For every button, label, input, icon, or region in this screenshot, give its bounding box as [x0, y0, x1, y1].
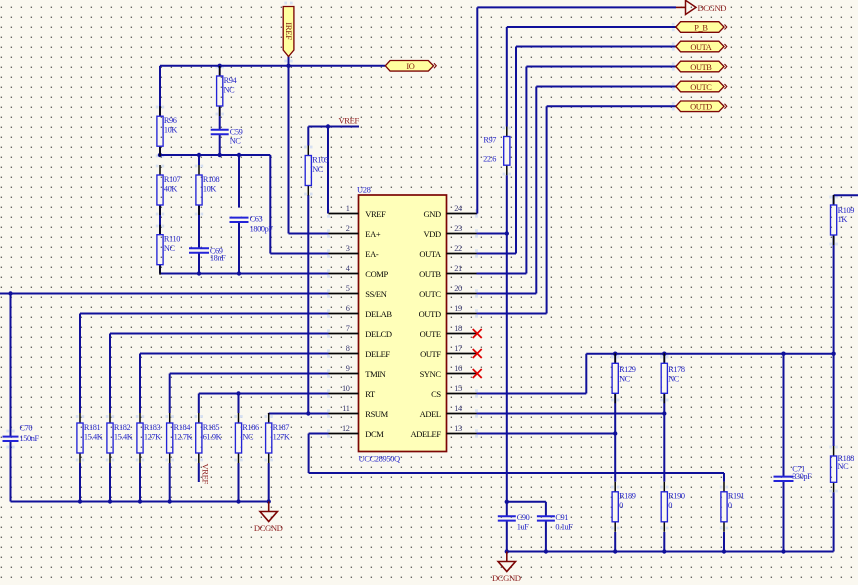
svg-text:R96: R96 [164, 116, 177, 125]
svg-text:1800pF: 1800pF [250, 225, 274, 234]
resistor R105 (NC) [305, 146, 329, 196]
wire: DELEF to R183 [140, 354, 329, 414]
svg-text:18nF: 18nF [210, 254, 226, 263]
wire: CS net (R129 R178 C71 R188 R109) [477, 195, 858, 476]
svg-text:OUTD: OUTD [690, 103, 712, 112]
IC U28 UCC28950Q [329, 184, 477, 463]
svg-text:NC: NC [619, 375, 631, 384]
svg-text:40K: 40K [164, 184, 177, 193]
svg-text:R190: R190 [668, 491, 685, 500]
svg-text:OUTF: OUTF [420, 349, 441, 359]
svg-text:RSUM: RSUM [365, 409, 388, 419]
svg-text:C90: C90 [517, 513, 530, 522]
resistor R110 (NC) [157, 225, 180, 275]
wire: TMIN to R184 [170, 374, 329, 414]
resistor R94 (NC) [217, 66, 238, 116]
svg-text:OUTB: OUTB [690, 63, 712, 72]
pin 11 (RSUM) [329, 404, 389, 419]
wire: R94 to C59 [219, 106, 221, 130]
svg-text:IO: IO [406, 62, 414, 71]
svg-text:R105: R105 [312, 156, 329, 165]
capacitor C63 1800pF [230, 215, 274, 234]
no-connect X on pin 18 [473, 329, 482, 338]
svg-text:U28: U28 [357, 184, 371, 194]
no-connect X on pin 16 [473, 369, 482, 378]
pin 7 (DELCD) [329, 324, 392, 339]
svg-text:R185: R185 [203, 423, 220, 432]
pin 2 (EA+) [329, 224, 381, 239]
svg-text:5: 5 [346, 284, 350, 293]
svg-text:R191: R191 [728, 491, 745, 500]
svg-text:61.9K: 61.9K [203, 432, 222, 441]
pin 18 (OUTE) [420, 324, 477, 339]
svg-text:UCC28950Q: UCC28950Q [359, 453, 401, 463]
svg-text:22: 22 [454, 244, 462, 253]
svg-text:COMP: COMP [365, 269, 388, 279]
svg-text:10K: 10K [164, 126, 177, 135]
svg-text:R97: R97 [483, 136, 496, 145]
resistor R109 1K [831, 195, 855, 245]
pin 20 (OUTC) [419, 284, 476, 299]
svg-text:127K: 127K [273, 432, 290, 441]
wire: R105 bottom to RSUM [307, 195, 309, 414]
svg-text:OUTC: OUTC [690, 83, 712, 92]
wire: OUTB net [477, 67, 677, 274]
resistor R185 61.9K [196, 413, 222, 463]
svg-text:12: 12 [342, 424, 350, 433]
svg-text:20: 20 [454, 284, 462, 293]
port OUTB [676, 61, 727, 72]
wire: R107 to R110 [159, 205, 161, 235]
svg-text:11: 11 [342, 404, 349, 413]
svg-text:VREF: VREF [339, 116, 360, 126]
svg-text:DELAB: DELAB [365, 309, 392, 319]
pin 17 (OUTF) [420, 344, 476, 359]
resistor R97 22.6 [483, 127, 510, 176]
svg-text:R110: R110 [164, 235, 180, 244]
svg-text:1K: 1K [838, 215, 848, 224]
svg-text:ADELEF: ADELEF [411, 429, 442, 439]
svg-text:VDD: VDD [423, 229, 440, 239]
svg-text:EA-: EA- [365, 249, 379, 259]
svg-text:TMIN: TMIN [365, 369, 385, 379]
svg-text:DCGND: DCGND [698, 3, 727, 13]
svg-text:NC: NC [312, 165, 324, 174]
pin 9 (TMIN) [329, 364, 386, 379]
svg-text:10: 10 [342, 384, 350, 393]
svg-text:GND: GND [423, 209, 440, 219]
port OUTD [676, 101, 727, 112]
pin 21 (OUTB) [419, 264, 476, 279]
resistor R181 15.4K [77, 413, 103, 463]
capacitor C90 1uF [498, 513, 530, 532]
svg-text:IREF: IREF [284, 22, 294, 40]
svg-text:RT: RT [365, 389, 376, 399]
svg-text:DELEF: DELEF [365, 349, 390, 359]
svg-text:OUTB: OUTB [419, 269, 441, 279]
svg-text:OUTA: OUTA [690, 43, 711, 52]
wire: COMP net (C63/C69/R110 to pin 4) [160, 222, 329, 276]
resistor R187 127K [266, 413, 290, 463]
svg-text:21: 21 [454, 264, 462, 273]
svg-text:19: 19 [454, 304, 462, 313]
svg-text:NC: NC [230, 136, 242, 145]
pin 4 (COMP) [329, 264, 389, 279]
svg-text:R187: R187 [273, 423, 290, 432]
wire: RT to R185 and R186 [199, 391, 329, 413]
svg-text:R186: R186 [242, 423, 259, 432]
port OUTC [676, 81, 727, 92]
svg-text:NC: NC [242, 432, 254, 441]
wire: OUTC net [477, 87, 677, 294]
svg-text:SS/EN: SS/EN [365, 289, 386, 299]
svg-text:R108: R108 [203, 175, 220, 184]
svg-text:EA+: EA+ [365, 229, 381, 239]
pin 15 (CS) [431, 384, 476, 399]
resistor R190 0 [661, 482, 685, 532]
svg-text:127K: 127K [144, 432, 161, 441]
svg-text:OUTD: OUTD [419, 309, 441, 319]
svg-text:C70: C70 [20, 423, 33, 432]
svg-text:12.7K: 12.7K [174, 432, 193, 441]
pin 16 (SYNC) [420, 364, 477, 379]
port OUTA [676, 41, 727, 52]
power ground DCGND (bottom left) [254, 502, 283, 533]
wire: R185 to VREF stub [198, 463, 200, 482]
wire: VDD / P_B net with R97 C90 C91 [477, 27, 677, 552]
svg-text:23: 23 [454, 224, 462, 233]
svg-text:R178: R178 [668, 365, 685, 374]
svg-text:DCM: DCM [365, 429, 384, 439]
svg-text:0: 0 [728, 501, 732, 510]
svg-text:SYNC: SYNC [420, 369, 442, 379]
pin 8 (DELEF) [329, 344, 391, 359]
svg-text:9: 9 [346, 364, 350, 373]
wire: IO / IREF / EA+ net [160, 56, 385, 234]
power ground DCGND (bottom middle) [492, 552, 521, 583]
svg-text:NC: NC [838, 462, 850, 471]
svg-text:CS: CS [431, 389, 441, 399]
pin 10 (RT) [329, 384, 377, 399]
resistor R108 10K [196, 165, 220, 215]
svg-text:DCGND: DCGND [254, 523, 283, 533]
svg-text:NC: NC [164, 244, 176, 253]
svg-text:330pF: 330pF [792, 472, 812, 481]
wire: R178 to R190 chain [663, 394, 665, 552]
wire: SS/EN net with C70 [0, 291, 329, 436]
wire: GND pin 24 to DCGND top [477, 7, 677, 213]
svg-text:R189: R189 [619, 491, 636, 500]
svg-text:150nF: 150nF [20, 434, 40, 443]
resistor R188 (NC) [831, 446, 855, 492]
svg-text:17: 17 [454, 344, 462, 353]
resistor R186 (NC) [235, 413, 259, 463]
svg-text:R183: R183 [144, 423, 161, 432]
svg-text:R182: R182 [114, 423, 131, 432]
wire: ground rail bottom-right [505, 481, 834, 554]
svg-text:0: 0 [619, 501, 623, 510]
svg-text:0: 0 [668, 501, 672, 510]
wire: ADEL net [477, 411, 667, 415]
pin 6 (DELAB) [329, 304, 393, 319]
svg-text:R129: R129 [619, 365, 636, 374]
svg-text:VREF: VREF [365, 209, 386, 219]
svg-text:C91: C91 [555, 513, 568, 522]
svg-text:C59: C59 [230, 128, 243, 137]
svg-text:15: 15 [454, 384, 462, 393]
no-connect X on pin 17 [473, 349, 482, 358]
port P_B [676, 22, 727, 33]
wire: ground rail bottom-left [11, 441, 271, 504]
svg-text:15.4K: 15.4K [114, 432, 133, 441]
wire: DELCD to R182 [110, 334, 329, 414]
svg-text:6: 6 [346, 304, 350, 313]
pin 24 (GND) [423, 204, 476, 219]
wire: divider mid net (R96/R107/R108/C59/C63 to EA-) [158, 135, 329, 254]
pin 1 (VREF) [329, 204, 387, 219]
svg-text:OUTA: OUTA [419, 249, 442, 259]
pin 14 (ADEL) [420, 404, 477, 419]
resistor R96 10K [157, 106, 177, 156]
capacitor C71 330pF [774, 464, 813, 481]
capacitor C91 0.1uF [537, 513, 573, 532]
resistor R182 15.4K [107, 413, 133, 463]
svg-text:C63: C63 [250, 215, 263, 224]
pin 22 (OUTA) [419, 244, 476, 259]
wire: DCM net to R191 [309, 434, 724, 482]
pin 23 (VDD) [423, 224, 476, 239]
svg-text:22.6: 22.6 [483, 155, 496, 164]
port IREF (vertical) [283, 7, 294, 57]
wire: RSUM to R187 [269, 411, 329, 415]
svg-text:NC: NC [668, 375, 680, 384]
wire: DELAB to R181 [80, 314, 329, 414]
pin 13 (ADELEF) [411, 424, 477, 439]
svg-text:R181: R181 [84, 423, 101, 432]
svg-text:24: 24 [454, 204, 463, 213]
wire: R191 bottom [723, 532, 725, 552]
capacitor C69 18nF [189, 246, 226, 262]
svg-text:R107: R107 [164, 175, 181, 184]
pin 5 (SS/EN) [329, 284, 387, 299]
svg-text:16: 16 [454, 364, 462, 373]
svg-text:OUTE: OUTE [420, 329, 441, 339]
wire: VREF net (label to pin 1 and R105) [308, 124, 359, 213]
svg-text:7: 7 [346, 324, 350, 333]
svg-text:P_B: P_B [694, 23, 708, 32]
svg-text:1uF: 1uF [517, 523, 529, 532]
svg-text:0.1uF: 0.1uF [555, 523, 573, 532]
wire: R129 to R189 chain [614, 394, 616, 552]
svg-text:VREF: VREF [201, 464, 211, 485]
resistor R184 12.7K [167, 413, 193, 463]
svg-text:ADEL: ADEL [420, 409, 441, 419]
resistor R129 (NC) [612, 353, 636, 403]
resistor R191 0 [721, 482, 745, 532]
svg-text:15.4K: 15.4K [84, 432, 103, 441]
resistor R189 0 [612, 482, 636, 532]
svg-text:DCGND: DCGND [492, 573, 521, 583]
svg-text:R109: R109 [838, 206, 855, 215]
wire: ADELEF net [477, 431, 618, 435]
wire: OUTD net [477, 106, 677, 313]
svg-text:1: 1 [346, 204, 350, 213]
port IO [385, 61, 436, 72]
pin 19 (OUTD) [419, 304, 477, 319]
svg-text:2: 2 [346, 224, 350, 233]
resistor R183 127K [137, 413, 161, 463]
capacitor C59 (NC) [211, 128, 243, 146]
svg-text:10K: 10K [203, 184, 216, 193]
svg-text:R184: R184 [174, 423, 192, 432]
wire: R108 to C69 [198, 205, 200, 248]
power ground DCGND (top right, pointing right) [676, 0, 726, 14]
svg-text:OUTC: OUTC [419, 289, 441, 299]
capacitor C70 150nF [3, 423, 40, 442]
svg-text:8: 8 [346, 344, 350, 353]
pin 3 (EA-) [329, 244, 379, 259]
resistor R178 (NC) [661, 353, 685, 403]
svg-text:NC: NC [224, 85, 236, 94]
pin 12 (DCM) [329, 424, 385, 439]
svg-text:13: 13 [454, 424, 462, 433]
resistor R107 40K [157, 165, 181, 215]
svg-text:3: 3 [346, 244, 350, 253]
svg-text:18: 18 [454, 324, 462, 333]
wire: OUTA net [477, 47, 677, 254]
svg-text:DELCD: DELCD [365, 329, 392, 339]
svg-text:14: 14 [454, 404, 463, 413]
svg-text:R94: R94 [224, 76, 238, 85]
